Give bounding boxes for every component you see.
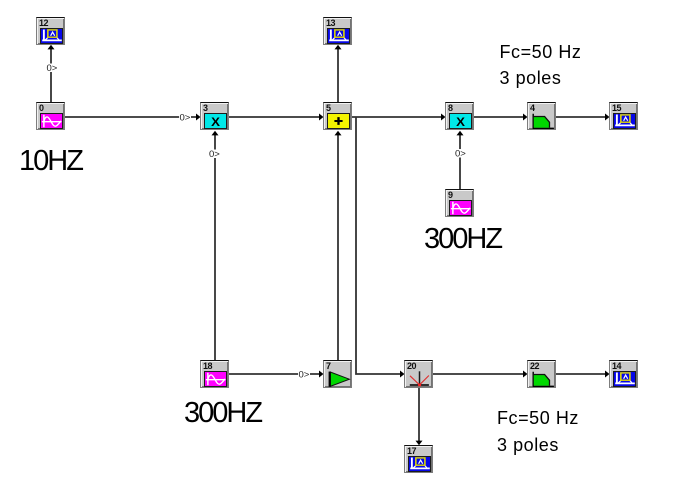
annotation Fc=50 Hz 3 poles bottom [497, 405, 579, 458]
arrowhead into 20 [400, 371, 405, 378]
wire 5 up to 13 [337, 48, 339, 102]
multiplier block 3 [200, 102, 229, 130]
adder block 5 [323, 102, 352, 130]
wire 5 to 8 [352, 116, 442, 118]
sink block 17 [404, 445, 433, 473]
wire 3 to 5 [229, 116, 320, 118]
token label wire 18-7 [298, 370, 310, 379]
arrowhead into 5 [319, 114, 324, 121]
filter block 22 [527, 360, 556, 388]
arrowhead into 3 bottom [212, 131, 219, 136]
wire 18 to 7 [229, 373, 320, 375]
arrowhead into 13 [335, 45, 342, 50]
sine source block 18 [200, 360, 229, 388]
sink block 14 [609, 360, 638, 388]
svg-text:0>: 0> [47, 63, 58, 74]
wire 18 up to 3 [214, 134, 216, 360]
token label wire 9-8 [455, 149, 467, 158]
sampler block 20 [404, 360, 433, 388]
sink block 13 [323, 17, 352, 45]
sink block 12 [36, 17, 65, 45]
text label 10HZ [19, 147, 82, 176]
arrowhead into 12 [48, 45, 55, 50]
arrowhead into 8 bottom [457, 131, 464, 136]
svg-text:0>: 0> [455, 149, 466, 160]
arrowhead into 15 [605, 114, 610, 121]
arrowhead into 4 [523, 114, 528, 121]
wire 20 to 22 [433, 373, 524, 375]
svg-text:X: X [211, 115, 220, 128]
amplifier block 7 [323, 360, 352, 388]
arrowhead into 5 bottom [335, 131, 342, 136]
svg-text:0>: 0> [209, 149, 220, 160]
svg-text:0>: 0> [180, 113, 191, 124]
filter block 4 [527, 102, 556, 130]
multiplier block 8 [445, 102, 474, 130]
token label wire 0-3 [179, 113, 191, 122]
token label wire 0-12 [46, 64, 58, 73]
svg-text:0>: 0> [299, 370, 310, 381]
text label 300HZ under block 9 [424, 225, 501, 254]
arrowhead into 7 [319, 371, 324, 378]
arrowhead into 14 [605, 371, 610, 378]
arrowhead into 3 [196, 114, 201, 121]
arrowhead into 22 [523, 371, 528, 378]
token label wire 18-3 [209, 150, 221, 159]
sink block 15 [609, 102, 638, 130]
wire 22 to 14 [556, 373, 606, 375]
wire 0 up to 12 [50, 48, 52, 102]
wire 0 to 3 [65, 116, 197, 118]
sine source block 9 [445, 189, 474, 217]
sine source block 0 [36, 102, 65, 130]
annotation Fc=50 Hz 3 poles top [500, 39, 582, 92]
arrowhead into 8 [441, 114, 446, 121]
wire 8 to 4 [474, 116, 524, 118]
wire 9 up to 8 [459, 134, 461, 189]
arrowhead into 17 top [416, 441, 423, 446]
wire 4 to 15 [556, 116, 606, 118]
text label 300HZ under block 18 [184, 399, 261, 428]
tap junction vertical from 5 output down [356, 117, 401, 374]
svg-text:X: X [456, 115, 465, 128]
wire 20 down to 17 [418, 388, 420, 442]
wire 7 up to 5 [337, 134, 339, 360]
